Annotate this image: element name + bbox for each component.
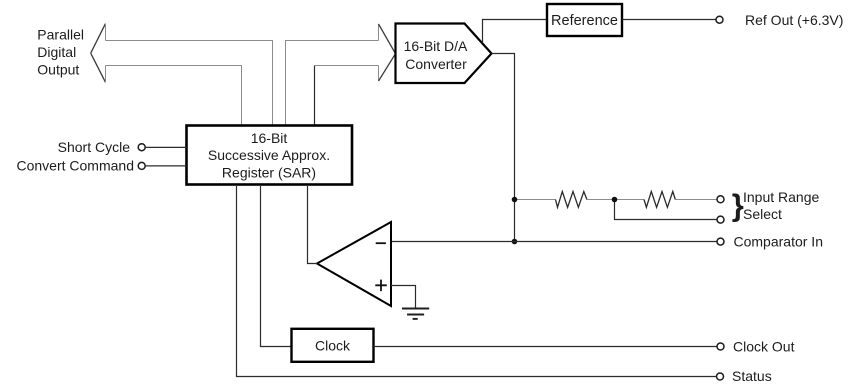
junction dot between R1 and R2: [612, 197, 618, 203]
svg-text:Digital: Digital: [37, 44, 76, 60]
wire: Convert Command to SAR: [145, 165, 186, 167]
svg-text:Ref Out (+6.3V): Ref Out (+6.3V): [745, 12, 843, 28]
terminal: Convert Command: [138, 162, 145, 169]
16-bit successive approximation register (SAR) block: [187, 126, 353, 185]
terminal: Comparator In: [717, 238, 724, 245]
Reference block: [547, 4, 622, 36]
clock block: [292, 329, 374, 362]
wire: junction drop to Input Range Select lower terminal: [615, 200, 717, 220]
svg-text:Input Range: Input Range: [743, 189, 819, 205]
svg-text:Register (SAR): Register (SAR): [222, 165, 316, 181]
wire: R2 to Input Range Select upper terminal: [675, 199, 717, 201]
terminal: Clock Out: [717, 343, 724, 350]
svg-text:Convert Command: Convert Command: [17, 158, 135, 174]
svg-text:Output: Output: [37, 62, 79, 78]
wire: Clock to Clock Out terminal: [374, 346, 718, 348]
ground: [402, 309, 429, 319]
wire: comparator plus input to ground: [391, 286, 416, 309]
wire: node to resistor R1: [515, 199, 556, 201]
terminal: Input Range Select lower: [717, 216, 724, 223]
wire: D/A tip right then down to comparator input node: [492, 54, 515, 242]
wire: bus top edge from arrow to SAR (down at x=272): [106, 41, 273, 126]
svg-text:Status: Status: [732, 368, 772, 384]
wire: SAR to Clock box: [261, 186, 292, 347]
wire: R1 to junction: [587, 199, 615, 201]
svg-text:Parallel: Parallel: [37, 27, 84, 43]
svg-text:Reference: Reference: [551, 13, 618, 29]
comparator U1 (triangle pointing left): [317, 222, 391, 306]
wire: bus bottom edge to D/A arrowhead: [315, 65, 379, 67]
svg-text:Converter: Converter: [405, 56, 467, 72]
comparator plus pin: [375, 280, 387, 292]
svg-text:Successive Approx.: Successive Approx.: [208, 147, 330, 163]
wire: comparator minus input to Comparator In terminal: [391, 241, 717, 243]
junction dot at D/A node and R1/R2: [512, 197, 518, 203]
terminal: Status: [717, 373, 724, 380]
bus arrowhead into D/A converter (hollow right arrow): [379, 24, 396, 81]
wire: Short Cycle to SAR: [145, 146, 186, 148]
wire: bus from SAR up (x=315, dark): [314, 66, 316, 126]
svg-text:16-Bit: 16-Bit: [251, 130, 288, 146]
svg-text:16-Bit D/A: 16-Bit D/A: [404, 38, 468, 54]
bus arrow to Parallel Digital Output (hollow left arrow): [91, 24, 106, 83]
wire: bus from SAR up (x=285) to D/A converter top edge: [286, 41, 379, 126]
resistor R2: [644, 192, 675, 208]
wire: Reference to Ref Out terminal: [622, 19, 716, 21]
svg-text:Clock: Clock: [315, 338, 351, 354]
svg-text:Comparator In: Comparator In: [734, 234, 823, 250]
terminal: Short Cycle: [138, 144, 145, 151]
terminal: Ref Out: [716, 16, 723, 23]
wire: SAR output to comparator (down x=307.5, right at y=263.5): [308, 186, 318, 264]
svg-text:Clock Out: Clock Out: [733, 338, 795, 354]
wire: D/A upper slant to Reference box: [483, 20, 547, 44]
comparator minus pin: [376, 242, 386, 244]
svg-text:Select: Select: [743, 206, 782, 222]
wire: junction to resistor R2: [615, 199, 645, 201]
junction dot at comparator input: [512, 239, 518, 245]
wire: SAR status output to Status terminal: [237, 186, 717, 377]
wire: bus bottom edge from arrow to SAR (down at x=240): [106, 66, 242, 126]
resistor R1: [556, 192, 587, 208]
16-bit D/A converter block (pentagon): [396, 24, 492, 84]
svg-text:Short Cycle: Short Cycle: [58, 139, 131, 155]
terminal: Input Range Select upper: [717, 196, 724, 203]
